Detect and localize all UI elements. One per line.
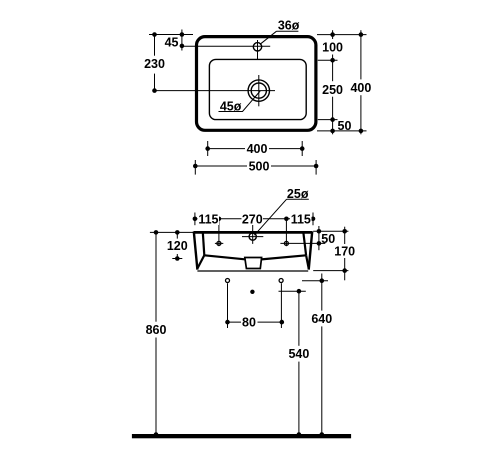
drain outer circle bbox=[248, 80, 269, 101]
washbasin inner bowl (top view) bbox=[209, 59, 306, 119]
svg-text:230: 230 bbox=[144, 57, 165, 71]
wire: right hole vertical lower bbox=[280, 283, 282, 328]
fixing hole right circle bbox=[279, 279, 283, 283]
drain crosshair vertical bbox=[258, 75, 260, 106]
faucet hole crosshair vertical bbox=[257, 40, 259, 59]
faucet hole circle 36ø bbox=[253, 43, 261, 51]
svg-text:640: 640 bbox=[311, 312, 332, 326]
label 860 bbox=[145, 322, 168, 338]
svg-text:500: 500 bbox=[249, 160, 270, 174]
svg-text:100: 100 bbox=[322, 41, 343, 55]
svg-text:170: 170 bbox=[334, 245, 355, 259]
wire: 50 extension through right rim hole bbox=[280, 242, 325, 244]
leader 25ø bbox=[254, 199, 308, 235]
wire: 540 extension bbox=[279, 290, 306, 292]
leader 45ø bbox=[219, 91, 261, 112]
basin front: right wall inner bbox=[303, 232, 306, 255]
label 120 bbox=[166, 239, 189, 254]
svg-text:270: 270 bbox=[242, 213, 263, 227]
label 115 left bbox=[198, 213, 220, 226]
dim right outer line (400) bbox=[360, 30, 362, 134]
wire: right extension bottom edge bbox=[317, 130, 367, 132]
washbasin outer rim (top view) bbox=[197, 37, 316, 131]
basin front: left wall outer bbox=[194, 232, 198, 270]
wire: left hole vertical bbox=[218, 219, 220, 246]
svg-text:45ø: 45ø bbox=[220, 100, 242, 114]
drain dot (front view) bbox=[250, 290, 254, 294]
label 400 (bottom) bbox=[245, 142, 269, 155]
tick front dim left bbox=[194, 213, 196, 226]
dim 50 right line bbox=[318, 226, 320, 250]
wire: 640 extension bbox=[302, 280, 328, 282]
svg-text:400: 400 bbox=[247, 142, 268, 156]
basin front: rim top bbox=[194, 231, 313, 234]
label 270 bbox=[242, 213, 264, 226]
wire: left hole vertical lower bbox=[227, 283, 229, 328]
wire: rim extension left bbox=[150, 231, 194, 233]
rim hole right circle bbox=[284, 241, 288, 245]
svg-text:36ø: 36ø bbox=[278, 18, 300, 32]
dim 400 bottom line bbox=[208, 148, 303, 150]
svg-text:50: 50 bbox=[338, 119, 352, 133]
tick 400 bottom left bbox=[207, 141, 209, 156]
label 540 bbox=[288, 346, 311, 362]
label 500 bbox=[247, 160, 271, 173]
basin front: drain box bbox=[245, 258, 262, 269]
text labels with white backing where they sit on lines bbox=[144, 18, 374, 361]
faucet front circle 25ø bbox=[249, 233, 256, 240]
label 640 bbox=[311, 311, 334, 327]
tick 500 bottom left bbox=[194, 160, 196, 175]
faucet hole crosshair horizontal bbox=[182, 45, 270, 47]
label 100 bbox=[322, 39, 344, 55]
svg-text:80: 80 bbox=[242, 316, 256, 330]
faucet front crosshair horizontal bbox=[242, 236, 263, 238]
svg-text:25ø: 25ø bbox=[287, 187, 309, 201]
wire: bottom extension right bbox=[313, 270, 348, 272]
drain crosshair horizontal + 230 extension bbox=[155, 90, 276, 92]
basin front: left wall underside bbox=[197, 255, 204, 268]
faucet front crosshair vertical bbox=[252, 223, 254, 244]
basin front: left wall inner bbox=[203, 232, 205, 255]
dim 860 line bbox=[155, 232, 157, 434]
label 250 bbox=[322, 81, 344, 97]
svg-text:50: 50 bbox=[321, 232, 335, 246]
svg-text:860: 860 bbox=[146, 323, 167, 337]
label 400 (right) bbox=[349, 79, 373, 95]
floor line bbox=[132, 434, 351, 438]
wire: right extension inner bottom bbox=[318, 119, 338, 121]
label 230 bbox=[144, 56, 166, 74]
drain inner circle 45ø bbox=[251, 83, 266, 98]
dim 230 line bbox=[154, 35, 156, 91]
tick 400 bottom right bbox=[301, 141, 303, 156]
label 170 bbox=[334, 244, 357, 258]
label 80 bbox=[241, 316, 258, 329]
dim 80 line bbox=[228, 321, 282, 323]
dim 640 line bbox=[321, 274, 323, 435]
basin front: bowl right slant bbox=[261, 255, 306, 259]
svg-text:45: 45 bbox=[165, 35, 179, 49]
rim hole left dash bbox=[215, 242, 223, 244]
wire: rim extension right bbox=[313, 230, 348, 232]
fixing hole left circle bbox=[226, 279, 230, 283]
basin front: bottom line bbox=[197, 270, 308, 272]
wire: top-left extension line (rear edge level) bbox=[149, 34, 193, 36]
svg-text:115: 115 bbox=[291, 213, 311, 227]
tick front dim right bbox=[312, 213, 314, 226]
wire: right extension top edge bbox=[317, 34, 367, 36]
wire: right hole vertical bbox=[285, 219, 287, 246]
dim right inner line (100/250/50) bbox=[332, 30, 334, 134]
svg-text:400: 400 bbox=[350, 81, 371, 95]
svg-text:540: 540 bbox=[288, 347, 309, 361]
dim 170 line bbox=[344, 227, 346, 281]
tick 500 bottom right bbox=[315, 160, 317, 175]
label 115 right bbox=[290, 213, 312, 226]
basin front: right wall underside bbox=[306, 255, 309, 268]
leader 36ø bbox=[260, 31, 298, 44]
rim hole left circle bbox=[217, 241, 221, 245]
tick 120 bottom bbox=[172, 258, 182, 260]
dim 540 line bbox=[298, 291, 300, 434]
dim 45 line bbox=[181, 30, 183, 51]
basin front: bowl left slant bbox=[204, 255, 245, 259]
dimension dots bbox=[152, 32, 363, 437]
dim 120 line bbox=[176, 232, 178, 260]
dim 500 bottom line bbox=[195, 165, 316, 167]
svg-text:115: 115 bbox=[198, 213, 218, 227]
svg-text:120: 120 bbox=[167, 239, 188, 253]
wire: right extension inner top bbox=[318, 59, 338, 61]
basin front: right wall outer bbox=[309, 232, 313, 270]
dim 115/270/115 line bbox=[195, 218, 313, 220]
svg-text:250: 250 bbox=[322, 83, 343, 97]
